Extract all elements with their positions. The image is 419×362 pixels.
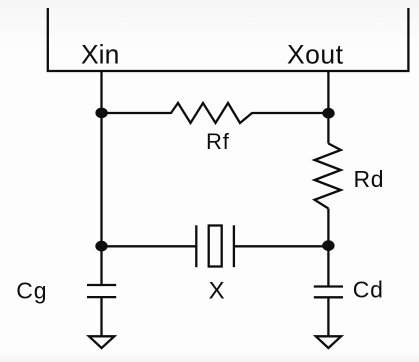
svg-text:X: X — [209, 278, 225, 305]
svg-text:Xout: Xout — [287, 40, 344, 70]
svg-text:Rf: Rf — [206, 129, 230, 154]
svg-text:Xin: Xin — [81, 40, 119, 70]
svg-text:Cd: Cd — [353, 277, 384, 303]
svg-text:Rd: Rd — [354, 166, 385, 192]
svg-text:Cg: Cg — [16, 277, 47, 303]
